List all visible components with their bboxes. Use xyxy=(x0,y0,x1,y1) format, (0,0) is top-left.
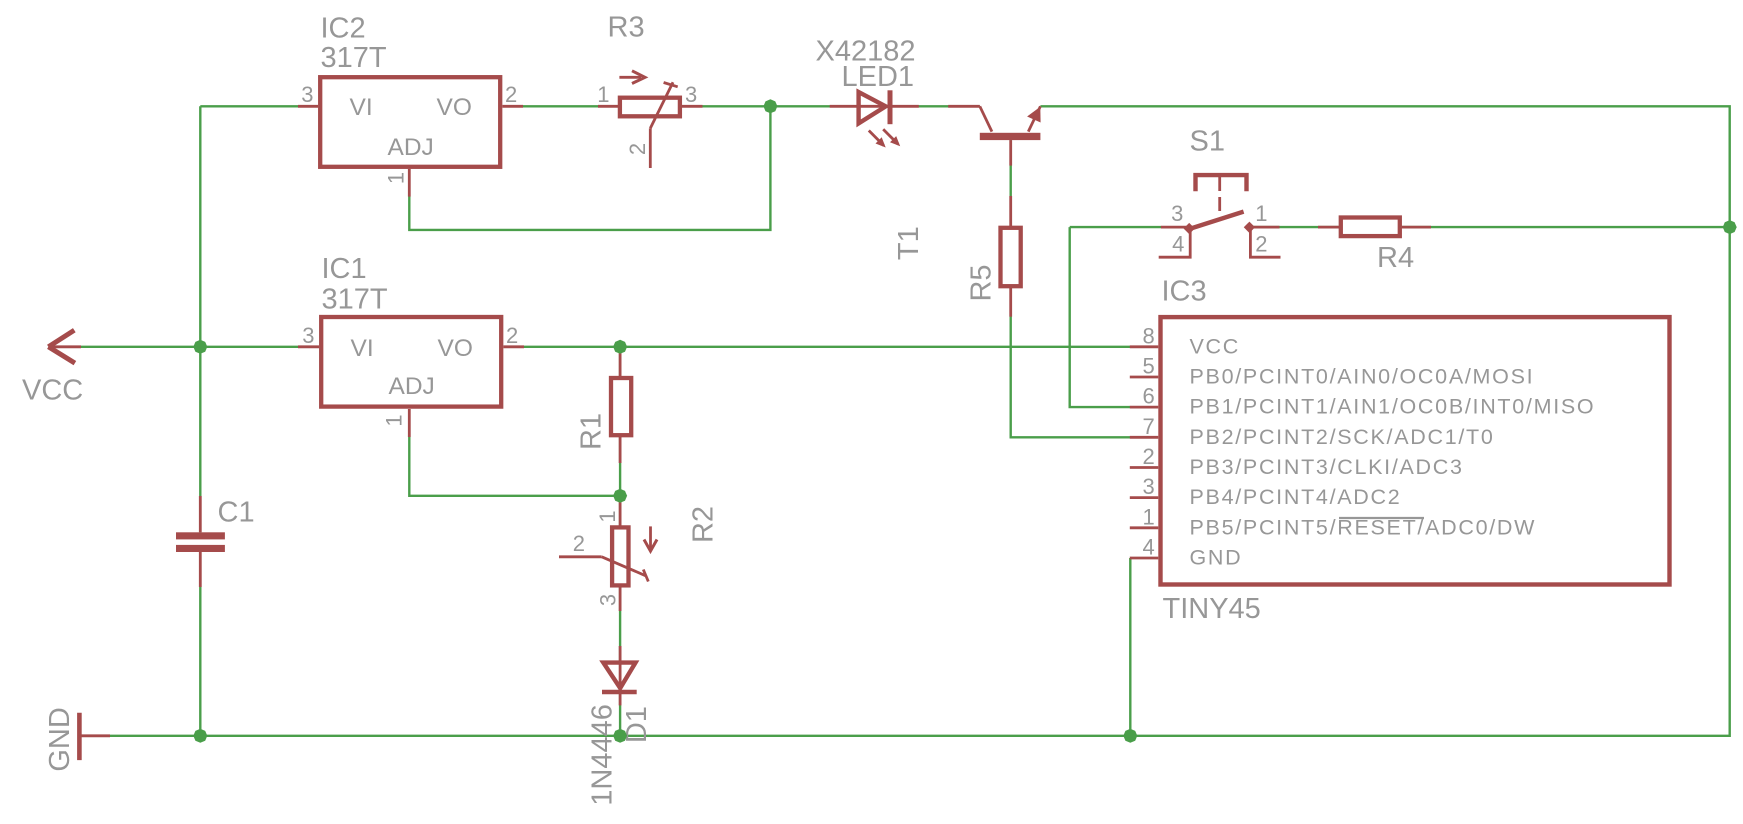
trimmer resistor R2 xyxy=(559,501,657,611)
svg-text:3: 3 xyxy=(301,82,313,107)
IC3 pin 1 stub xyxy=(1130,526,1159,529)
IC2 pin 2 (VO) xyxy=(502,105,523,108)
wire VCC rail to R1 top xyxy=(619,347,621,377)
node junction bottom rail / IC3 GND xyxy=(1123,729,1137,743)
svg-text:1: 1 xyxy=(597,82,609,107)
transistor T1 xyxy=(948,106,1040,165)
svg-text:2: 2 xyxy=(1255,231,1267,256)
svg-text:GND: GND xyxy=(1190,546,1243,570)
IC3 pin 2 stub xyxy=(1130,466,1159,469)
svg-text:ADJ: ADJ xyxy=(388,134,434,161)
svg-text:PB4/PCINT4/ADC2: PB4/PCINT4/ADC2 xyxy=(1190,485,1402,509)
node junction bottom rail / D1 xyxy=(613,729,627,743)
wire R1 bottom to node xyxy=(619,437,621,496)
node junction R1 bottom / ADJ1 / R2 xyxy=(613,489,627,503)
node junction R4 / right edge xyxy=(1723,220,1737,234)
svg-text:1: 1 xyxy=(1255,201,1267,226)
IC2 pin 1 (ADJ) xyxy=(408,169,411,197)
diode D1 xyxy=(602,646,637,705)
svg-text:R2: R2 xyxy=(688,506,720,543)
IC1 pin 2 (VO) xyxy=(503,345,524,348)
svg-text:VCC: VCC xyxy=(22,375,83,407)
svg-text:PB0/PCINT0/AIN0/OC0A/MOSI: PB0/PCINT0/AIN0/OC0A/MOSI xyxy=(1190,365,1535,389)
wire left vertical lower (x=200) xyxy=(199,552,201,736)
LED1 arrowhead 1 xyxy=(876,137,886,147)
wire IC1 ADJ to R1/R2 node xyxy=(409,436,620,496)
wire R4 to right edge xyxy=(1402,226,1730,228)
svg-text:LED1: LED1 xyxy=(842,61,915,93)
IC3 pin 5 stub xyxy=(1130,376,1159,379)
IC1 pin 3 (VI) xyxy=(298,345,319,348)
wire S1 pin3 branch vertical to IC3 pin6 xyxy=(1070,227,1130,407)
svg-text:R4: R4 xyxy=(1377,242,1414,274)
IC2 pin 3 (VI) xyxy=(298,105,318,108)
svg-text:2: 2 xyxy=(573,531,585,556)
microcontroller IC3 box xyxy=(1161,317,1670,584)
svg-text:4: 4 xyxy=(1172,231,1184,256)
svg-text:1: 1 xyxy=(595,510,620,522)
svg-text:VCC: VCC xyxy=(1190,334,1241,358)
resistor R5 xyxy=(1001,196,1021,317)
LED1 arrowhead 2 xyxy=(890,136,900,146)
wire VCC rail IC1 to IC3 pin8 xyxy=(521,346,1131,348)
wire R5 bottom to IC3 pin7 xyxy=(1011,288,1130,437)
wire left vertical upper (x=200) xyxy=(199,106,201,532)
svg-text:3: 3 xyxy=(685,82,697,107)
svg-text:PB2/PCINT2/SCK/ADC1/T0: PB2/PCINT2/SCK/ADC1/T0 xyxy=(1190,425,1495,449)
wire T1 base to R5 top xyxy=(1010,140,1012,226)
node junction VCC rail / R1 top xyxy=(613,340,627,354)
IC3 pin 8 stub xyxy=(1130,345,1159,348)
svg-text:VO: VO xyxy=(437,94,472,121)
svg-text:2: 2 xyxy=(505,82,517,107)
svg-text:PB3/PCINT3/CLKI/ADC3: PB3/PCINT3/CLKI/ADC3 xyxy=(1190,455,1464,479)
svg-text:VI: VI xyxy=(351,335,374,362)
svg-text:VI: VI xyxy=(350,94,373,121)
svg-text:VO: VO xyxy=(438,335,473,362)
node junction at R3/LED rail and ADJ loop xyxy=(763,99,777,113)
resistor R4 xyxy=(1318,218,1431,237)
IC3 pin 6 stub xyxy=(1130,406,1159,409)
svg-text:3: 3 xyxy=(1171,201,1183,226)
svg-text:2: 2 xyxy=(625,143,650,155)
node junction bottom rail / left vertical xyxy=(193,729,207,743)
svg-text:1: 1 xyxy=(1143,504,1155,529)
svg-text:5: 5 xyxy=(1143,354,1155,379)
svg-text:6: 6 xyxy=(1143,384,1155,409)
wire S1 pin3 horizontal xyxy=(1070,226,1161,228)
svg-text:317T: 317T xyxy=(322,284,388,316)
node junction VCC rail / left vertical xyxy=(193,340,207,354)
wire top rail left segment xyxy=(200,105,300,107)
wire D1 cathode to bottom rail xyxy=(619,695,621,736)
svg-text:7: 7 xyxy=(1143,414,1155,439)
wire top rail IC2 to R3 xyxy=(521,105,600,107)
svg-text:3: 3 xyxy=(302,323,314,348)
svg-text:ADJ: ADJ xyxy=(389,373,435,400)
svg-text:2: 2 xyxy=(1143,444,1155,469)
wire IC3 GND pin4 to bottom rail xyxy=(1129,558,1131,736)
capacitor C1 xyxy=(176,496,225,587)
svg-text:S1: S1 xyxy=(1190,125,1225,157)
LED LED1 xyxy=(830,90,919,145)
svg-text:PB1/PCINT1/AIN1/OC0B/INT0/MISO: PB1/PCINT1/AIN1/OC0B/INT0/MISO xyxy=(1190,395,1596,419)
svg-text:IC3: IC3 xyxy=(1162,276,1207,308)
IC3 pin 4 stub xyxy=(1130,557,1159,560)
svg-text:TINY45: TINY45 xyxy=(1163,593,1261,625)
voltage regulator IC2 box xyxy=(320,77,500,167)
svg-text:T1: T1 xyxy=(893,226,925,260)
wire node to R2 top xyxy=(619,496,621,526)
IC3 pin 3 stub xyxy=(1130,496,1159,499)
ground symbol GND xyxy=(79,713,110,760)
svg-text:3: 3 xyxy=(1143,474,1155,499)
IC3 pin 7 stub xyxy=(1130,436,1159,439)
svg-text:C1: C1 xyxy=(218,497,255,529)
svg-text:3: 3 xyxy=(595,594,620,606)
voltage regulator IC1 box xyxy=(321,317,501,407)
wire S1 pin1 to R4 xyxy=(1249,226,1338,228)
svg-text:4: 4 xyxy=(1143,535,1155,560)
svg-text:1: 1 xyxy=(384,172,409,184)
svg-text:R3: R3 xyxy=(608,12,645,44)
switch S1 xyxy=(1159,175,1281,257)
IC1 pin 1 (ADJ) xyxy=(408,409,411,437)
svg-text:1N4446: 1N4446 xyxy=(587,704,619,806)
svg-text:IC2: IC2 xyxy=(321,13,366,45)
wire R2 bottom to D1 xyxy=(619,587,621,662)
S1 right contact dot xyxy=(1244,222,1255,233)
IC3 RESET overline xyxy=(1339,517,1424,519)
supply symbol VCC xyxy=(48,330,81,363)
resistor R1 xyxy=(611,352,631,463)
wire top rail R3 to T1 xyxy=(701,105,980,107)
svg-text:GND: GND xyxy=(44,707,76,771)
svg-text:317T: 317T xyxy=(321,42,387,74)
svg-text:R5: R5 xyxy=(966,264,998,301)
svg-text:8: 8 xyxy=(1143,323,1155,348)
svg-text:1: 1 xyxy=(382,414,407,426)
svg-text:IC1: IC1 xyxy=(322,253,367,285)
svg-text:R1: R1 xyxy=(575,413,607,450)
svg-text:2: 2 xyxy=(506,323,518,348)
S1 pivot contact dot xyxy=(1184,223,1195,234)
wire top rail right + right edge + bottom rail xyxy=(110,106,1730,736)
wire IC2 ADJ feedback loop xyxy=(409,106,770,230)
wire VCC rail left of IC1 xyxy=(80,346,300,348)
trimmer resistor R3 xyxy=(598,71,703,168)
